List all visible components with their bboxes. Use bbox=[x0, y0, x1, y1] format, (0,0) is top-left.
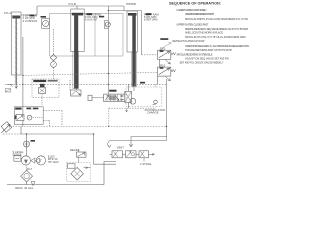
valve box V3 bbox=[32, 79, 59, 97]
cylinder B rod bbox=[74, 14, 78, 89]
pilot line cyl B to SV2 bbox=[23, 72, 158, 75]
cylinder A rod arrow bbox=[15, 84, 18, 89]
wire valve drop bbox=[127, 102, 129, 108]
gauge G2 bbox=[51, 62, 57, 68]
svg-text:ADJUST DN SEQ VALVE SET 400 PS: ADJUST DN SEQ VALVE SET 400 PSI bbox=[185, 56, 229, 60]
svg-text:PISTON: PISTON bbox=[127, 3, 136, 6]
wire SV2 drain to return bbox=[166, 79, 168, 141]
svg-text:CYL A: CYL A bbox=[4, 12, 11, 15]
svg-text:OPERATOR DEPRESSES "A" AND "B": OPERATOR DEPRESSES "A" AND "B" bbox=[185, 12, 214, 16]
note block cyl A bbox=[23, 14, 38, 23]
svg-text:2 STAGE: 2 STAGE bbox=[140, 162, 151, 166]
heat exchanger enclosure bbox=[67, 163, 91, 182]
svg-text:CHARGE: CHARGE bbox=[147, 111, 159, 115]
vent symbol bbox=[7, 84, 13, 86]
frame divider bbox=[94, 14, 96, 57]
label motor bbox=[48, 155, 59, 164]
svg-text:HP 1200: HP 1200 bbox=[48, 160, 59, 164]
svg-text:6 RETURN: 6 RETURN bbox=[144, 18, 158, 22]
drain arrow SV1 bbox=[165, 59, 170, 64]
wire SV2 to pilot rail bbox=[157, 76, 159, 84]
wire drop to accumulator enclosure bbox=[141, 11, 143, 55]
dashed enclosure E1 bbox=[126, 87, 162, 107]
note block cyl C bbox=[144, 12, 159, 21]
svg-text:VENT: VENT bbox=[117, 145, 125, 149]
sequence valve SV1 bbox=[158, 50, 171, 59]
svg-text:SPOOL #2 AT 2 PSI, CYL "B" FIL: SPOOL #2 AT 2 PSI, CYL "B" FILLS, #4 RET… bbox=[185, 35, 246, 39]
wire rail step bbox=[109, 6, 142, 11]
motor M1 bbox=[36, 156, 45, 165]
relief valve RV1 bbox=[77, 152, 87, 157]
label accumulator bbox=[145, 108, 166, 115]
pilot rail P1 dashed bbox=[5, 83, 167, 85]
cylinder C rod outline bbox=[131, 52, 137, 86]
wire tank riser bbox=[104, 162, 116, 185]
cylinder B body bbox=[71, 9, 84, 52]
wire cyl C rod to block bbox=[133, 86, 135, 91]
label melt 1 bbox=[160, 38, 168, 40]
sequence valve SV2 bbox=[158, 67, 171, 76]
directional valve DV1 solenoid bbox=[88, 95, 92, 100]
label DV1 bbox=[109, 90, 116, 92]
wire cyl A to rail bbox=[21, 6, 37, 15]
wire pump riser bbox=[26, 134, 28, 156]
cylinder A body bbox=[12, 12, 22, 75]
coupling bbox=[31, 158, 40, 163]
pilot drop from gauge G1 bbox=[53, 29, 55, 54]
value label dash bbox=[41, 16, 47, 18]
label check bbox=[99, 16, 104, 18]
strainer bbox=[31, 182, 35, 186]
drain arrow SV2 bbox=[165, 76, 170, 81]
gauge G1 bbox=[42, 19, 50, 29]
pilot stub E1 bbox=[155, 84, 157, 87]
spring SV2 bbox=[171, 69, 176, 72]
note block cyl B bbox=[85, 12, 101, 21]
tank line bbox=[7, 182, 104, 185]
wire drop to tank lines bbox=[94, 134, 116, 164]
wire valve V4a drop bbox=[22, 121, 24, 127]
svg-text:6 AUX WT: 6 AUX WT bbox=[85, 18, 98, 22]
wire return L1 bbox=[129, 137, 166, 148]
heat exchanger diamond bbox=[71, 167, 84, 180]
wire P2 to tank rail bbox=[20, 126, 22, 134]
gauge in V4 bbox=[27, 115, 32, 120]
pump P1 bbox=[21, 156, 30, 165]
label riser bbox=[31, 140, 36, 142]
wire cyl B top stub bbox=[76, 6, 78, 9]
drain valve DR1 bbox=[1, 122, 12, 133]
svg-text:AND LOCKS THE WORK IN PLACE: AND LOCKS THE WORK IN PLACE bbox=[185, 30, 223, 34]
label pilot bbox=[140, 82, 145, 84]
svg-text:3 CUSHION: 3 CUSHION bbox=[23, 19, 38, 23]
accumulator A1 bbox=[130, 98, 136, 104]
cylinder C body bbox=[127, 11, 138, 52]
valve box V4 bbox=[14, 107, 43, 125]
wire SV1 to SV2 bbox=[159, 59, 161, 67]
spring SV1 bbox=[171, 52, 176, 55]
pilot from V4 bbox=[43, 110, 62, 112]
junction V1 pilot bbox=[108, 73, 109, 74]
svg-text:RESV. 40 GAL: RESV. 40 GAL bbox=[15, 186, 33, 190]
svg-text:RETRACT PLATEN UP NOW: RETRACT PLATEN UP NOW bbox=[173, 39, 205, 43]
cylinder A piston bbox=[12, 16, 20, 19]
svg-text:SET 400 PSI, CHECK GAUGE WEEKL: SET 400 PSI, CHECK GAUGE WEEKLY bbox=[180, 61, 224, 65]
svg-text:SPOOLS RECENTER, SYSTEM IDLE: SPOOLS RECENTER, SYSTEM IDLE bbox=[177, 52, 213, 56]
wire main drop V1 bbox=[107, 6, 109, 94]
valve on riser bbox=[24, 141, 30, 147]
wire valve V3a drop bbox=[41, 94, 43, 106]
svg-text:SPOOL #1 SHIFTS, P1 OIL FLOW,: SPOOL #1 SHIFTS, P1 OIL FLOW, #3 EXTENDS… bbox=[185, 17, 248, 21]
svg-text:RELIEF: RELIEF bbox=[70, 148, 80, 152]
drain zigzag bbox=[107, 141, 111, 148]
gauge in enclosure bbox=[154, 100, 158, 104]
cylinder C piston bbox=[128, 13, 137, 16]
svg-text:LOWER PLATEN DOWN SPEED: LOWER PLATEN DOWN SPEED bbox=[177, 8, 207, 12]
level switch box bbox=[14, 156, 21, 161]
label level bbox=[13, 150, 25, 157]
svg-text:OPERATOR RELEASES "A", ALL PRE: OPERATOR RELEASES "A", ALL PRESSURE IS R… bbox=[185, 44, 249, 48]
valve under cyl B bbox=[70, 80, 81, 96]
wire level to pump bbox=[20, 158, 23, 160]
gauge box HX bbox=[67, 164, 75, 168]
svg-text:UPPER PLATEN CLOSES FAST: UPPER PLATEN CLOSES FAST bbox=[177, 22, 209, 26]
unloading valve row bbox=[110, 151, 155, 162]
svg-text:SEQUENCE OF OPERATION:: SEQUENCE OF OPERATION: bbox=[169, 1, 221, 5]
solenoid valve V3a bbox=[40, 84, 45, 87]
wire gauge to box V3 bbox=[53, 67, 55, 79]
svg-text:T: T bbox=[40, 159, 42, 163]
check valve CV2 bbox=[50, 54, 56, 60]
pilot rail P2 dashed bbox=[10, 125, 167, 127]
cylinder B rod outline bbox=[73, 52, 79, 89]
directional valve DV1 body bbox=[104, 94, 125, 101]
svg-text:FILT: FILT bbox=[27, 167, 33, 171]
leader line bbox=[161, 43, 172, 51]
press frame bbox=[50, 14, 124, 57]
svg-text:TOP RAM RETURNS FAST UP TO ITS: TOP RAM RETURNS FAST UP TO ITS STOP bbox=[185, 48, 232, 52]
svg-text:SENSE: SENSE bbox=[13, 152, 22, 156]
cylinder C rod bbox=[132, 14, 136, 86]
solenoid valve V4a bbox=[16, 115, 24, 121]
junction tank rail bbox=[93, 133, 94, 134]
wire HE out bbox=[83, 167, 90, 169]
svg-text:CYL B: CYL B bbox=[69, 3, 76, 6]
wire top rail 1 bbox=[37, 5, 124, 7]
filter F1 bbox=[21, 170, 33, 182]
svg-text:SEQ: SEQ bbox=[160, 63, 166, 67]
drain tick bbox=[125, 108, 127, 112]
check valve CV1 bypass bbox=[104, 21, 108, 29]
valve DV1 end block bbox=[125, 91, 132, 102]
pilot drop to rail P2 bbox=[108, 108, 110, 126]
cylinder B piston bbox=[72, 13, 83, 16]
check valve CV1 bbox=[105, 22, 110, 27]
wire end block to pilot rail bbox=[127, 84, 129, 91]
tank rail bbox=[3, 133, 21, 135]
sequence of operation text bbox=[169, 1, 249, 64]
wire return R2 bbox=[110, 140, 167, 142]
pilot line to SV1 bbox=[142, 54, 158, 56]
pilot line to accumulator bbox=[109, 107, 156, 109]
cylinder A rod bbox=[15, 19, 17, 86]
junction rail2 V1 bbox=[108, 10, 109, 11]
wire cyl A branch to box V4 bbox=[22, 37, 24, 115]
svg-text:PRESSURE BUILDS, SEQ VALVE OPE: PRESSURE BUILDS, SEQ VALVE OPENS, OIL TO… bbox=[185, 27, 248, 31]
wire pump to filter bbox=[25, 165, 28, 170]
